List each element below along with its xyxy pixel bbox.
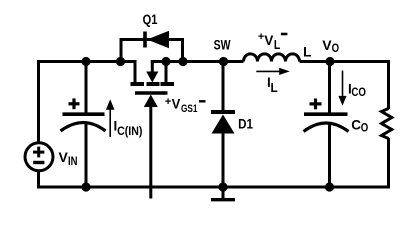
- svg-text:L: L: [271, 81, 279, 95]
- label VO: [322, 37, 339, 55]
- ground symbol: [211, 188, 235, 200]
- node VO dot: [325, 57, 334, 66]
- node SW dot: [219, 57, 228, 66]
- transistor Q1: body arrow (down triangle): [146, 60, 158, 83]
- label ICO: [348, 81, 366, 99]
- gate arrow head (VGS1 reference, pointing up at gate): [144, 95, 158, 108]
- capacitor CIN: top plate: [63, 112, 105, 116]
- node: top rail dot at MOSFET source leg: [161, 57, 170, 66]
- transistor Q1: body-diode branch wires: [121, 40, 183, 62]
- capacitor CO: top plate: [304, 112, 348, 116]
- inductor L coil: [244, 54, 300, 62]
- label VIN: [59, 149, 78, 168]
- capacitor CO polarity plus: [310, 99, 322, 110]
- label IL: [267, 75, 278, 95]
- capacitor CIN: bottom wire: [85, 124, 88, 187]
- node: bottom rail dot at D1 / ground: [218, 182, 227, 191]
- wire: top rail segment B (MOSFET source/body to SW to VO to load corner): [151, 60, 244, 63]
- capacitor CIN polarity plus: [69, 98, 80, 109]
- svg-text:V: V: [172, 97, 181, 112]
- svg-text:SW: SW: [214, 37, 231, 52]
- label IC(IN): [114, 118, 143, 138]
- current arrow IL: [256, 68, 290, 75]
- capacitor CO: top wire: [328, 62, 331, 114]
- node: top rail dot at Q1 body-diode left: [116, 57, 125, 66]
- diode D1: cathode bar: [211, 110, 235, 114]
- label CO: [351, 117, 368, 134]
- svg-text:L: L: [274, 38, 281, 52]
- svg-text:L: L: [303, 45, 311, 60]
- node: bottom rail dot at CIN: [81, 182, 90, 191]
- svg-text:C(IN): C(IN): [117, 126, 142, 138]
- current arrow ICO: [338, 71, 346, 106]
- svg-text:GS1: GS1: [181, 103, 198, 115]
- voltage source VIN plus: [33, 147, 44, 158]
- transistor Q1: channel segment left: [131, 82, 145, 86]
- transistor Q1: source leg: [165, 60, 168, 82]
- wire: bottom ground rail: [39, 138, 391, 187]
- svg-text:O: O: [332, 43, 340, 55]
- transistor Q1: drain leg: [134, 60, 137, 82]
- node: bottom rail dot at CO: [325, 182, 334, 191]
- node: top rail dot at CIN: [81, 57, 90, 66]
- diode D1: bottom wire: [222, 134, 225, 188]
- wire: gate drive line crossing ground rail: [149, 104, 152, 199]
- svg-text:+: +: [165, 96, 171, 108]
- node: top rail dot at Q1 body-diode right: [178, 57, 187, 66]
- transistor Q1: channel segment right: [161, 82, 175, 86]
- transistor Q1: body-diode cathode bar: [143, 32, 147, 48]
- svg-text:Q1: Q1: [143, 12, 158, 27]
- svg-text:V: V: [264, 33, 273, 48]
- wire: top rail segment A (VIN top to Q1 drain corner): [39, 62, 137, 144]
- current arrow IC(IN): [106, 99, 115, 137]
- transistor Q1: gate bar: [135, 91, 168, 95]
- label +VL- above inductor: [258, 31, 288, 52]
- capacitor CO: curved bottom plate: [304, 123, 349, 132]
- diode D1: top wire from SW: [222, 62, 225, 111]
- svg-text:V: V: [59, 149, 69, 165]
- wire: top rail after inductor (L to VO to right corner): [300, 62, 389, 110]
- transistor Q1: channel segment middle: [147, 82, 160, 86]
- resistor load: [382, 109, 392, 139]
- voltage source VIN minus: [33, 161, 44, 164]
- capacitor CIN: curved bottom plate: [61, 123, 106, 132]
- svg-text:CO: CO: [351, 87, 366, 99]
- diode D1: triangle (anode, pointing up): [212, 115, 235, 134]
- svg-text:IN: IN: [68, 156, 78, 168]
- svg-text:O: O: [361, 123, 369, 135]
- label +VGS1-: [165, 96, 206, 115]
- capacitor CIN: top wire: [85, 62, 88, 114]
- svg-text:C: C: [351, 117, 361, 132]
- voltage source VIN circle: [25, 143, 53, 171]
- capacitor CO: bottom wire: [328, 124, 331, 187]
- svg-text:D1: D1: [238, 116, 253, 131]
- transistor Q1: body-diode triangle: [147, 31, 169, 49]
